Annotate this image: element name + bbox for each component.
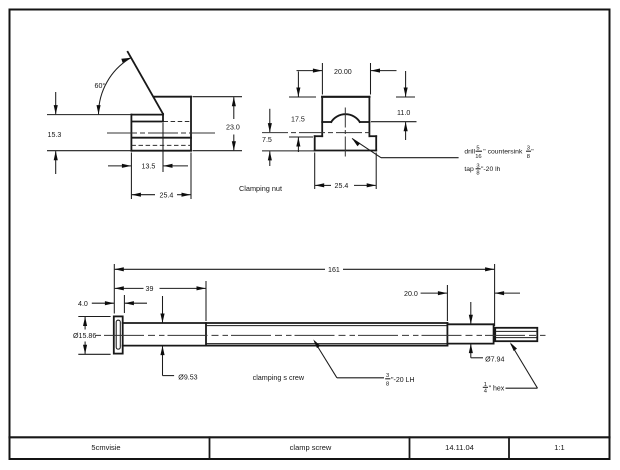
dim dia15.86: upper arrow [84, 317, 86, 330]
dim 13.5: extension line from step [162, 123, 164, 172]
dim 20.0: left extension [446, 285, 448, 321]
svg-text:60°: 60° [95, 82, 106, 90]
dim dia9.53: lower arrow with leader [162, 346, 164, 376]
screw: neck end vertical [493, 324, 495, 343]
side view: right edge [190, 97, 192, 151]
side view: slant edge [128, 52, 163, 114]
dim 25.4 front: left extension [314, 153, 316, 190]
dim 161: dim line with arrows [115, 268, 325, 270]
screw: head inner face [116, 320, 120, 349]
front view: bottom edge [315, 150, 377, 152]
screw: hex outline [495, 328, 537, 341]
dim 15.3: extension line top [47, 114, 131, 116]
title block: divider 3 [508, 437, 510, 459]
dim 161: left extension [113, 264, 115, 314]
svg-text:14.11.04: 14.11.04 [445, 443, 474, 452]
svg-text:161: 161 [328, 266, 340, 274]
front view: right shoulder [369, 135, 376, 137]
dim 7.5: bottom extension [262, 150, 314, 152]
side view: top edge of low block [131, 114, 163, 116]
dim 17.5: top extension [289, 96, 316, 98]
dim 15.3: lower arrow [55, 151, 57, 174]
dim 60deg: arrow bottom [97, 105, 101, 114]
dim dia15.86: bottom extension [78, 353, 110, 355]
dim dia9.53: upper arrow [162, 296, 164, 323]
svg-text:23.0: 23.0 [226, 124, 240, 132]
svg-text:25.4: 25.4 [335, 182, 349, 190]
front view: left shoulder [315, 135, 323, 137]
dim 7.5: upper arrow [269, 109, 271, 132]
svg-text:5: 5 [476, 145, 479, 151]
dim 7.5: lower arrow [269, 151, 271, 166]
screw: head outer rectangle [114, 316, 123, 353]
dim 23.0: extension top [193, 96, 243, 98]
front view: top edge [322, 96, 369, 98]
leader to tapped hole [352, 138, 381, 157]
screw: shank top edge [123, 322, 448, 324]
svg-text:4.0: 4.0 [78, 300, 88, 308]
side view: groove line solid part [131, 121, 163, 123]
svg-text:8: 8 [476, 171, 479, 177]
screw: shank bottom edge [123, 345, 448, 347]
svg-text:20.00: 20.00 [334, 68, 352, 76]
dim dia7.94: upper arrow [470, 302, 472, 324]
screw: thread root top [206, 325, 447, 327]
svg-text:17.5: 17.5 [291, 116, 305, 124]
svg-text:Ø15.86: Ø15.86 [73, 332, 96, 340]
front view: horizontal centerline [262, 132, 372, 134]
dim 15.3: extension line bottom [47, 150, 131, 152]
dim 25.4: left extension line [130, 153, 132, 200]
dim 60deg: arc [99, 58, 131, 114]
dim 20.0: right arrow [495, 292, 520, 294]
dim dia15.86: lower arrow [84, 342, 86, 354]
dim 25.4 front: right extension [375, 153, 377, 190]
side view: horizontal centerline [107, 132, 215, 134]
dim 4.0: right extension [123, 295, 125, 313]
svg-text:39: 39 [146, 285, 154, 293]
dim 20.00: right extension [370, 63, 372, 95]
dim 23.0: upper arrow [233, 97, 235, 119]
dim 4.0: right arrow [125, 302, 147, 304]
title block: divider 2 [409, 437, 411, 459]
screw: thread root bottom [206, 343, 447, 345]
side view: top edge of tall block [154, 96, 191, 98]
dim 13.5: left arrow [108, 165, 131, 167]
dim 13.5: right arrow [163, 165, 188, 167]
dim 23.0: extension bottom [193, 150, 243, 152]
svg-text:1:1: 1:1 [554, 443, 564, 452]
svg-text:Ø7.94: Ø7.94 [485, 355, 504, 363]
screw: hex flat line upper [495, 330, 537, 332]
side view: hidden hole line [131, 144, 191, 146]
front view: right upper edge [368, 97, 370, 136]
dim 25.4: right extension line [190, 153, 192, 200]
svg-text:"-20 LH: "-20 LH [391, 377, 415, 384]
dim dia7.94: lower arrow with leader [470, 344, 472, 358]
dim 161: right extension [494, 264, 496, 326]
svg-text:" hex: " hex [489, 386, 505, 393]
side view: left edge [130, 115, 132, 151]
front view: vertical centerline [344, 108, 346, 157]
dim 60deg: arrow top [121, 58, 131, 63]
svg-text:11.0: 11.0 [397, 109, 410, 117]
dim 20.00: right arrow [371, 70, 397, 72]
leader 3/8-20 LH [315, 342, 337, 378]
side view: mid solid line [131, 137, 191, 139]
dim 25.4 front: dim line with arrows [315, 184, 331, 186]
front view: left upper edge [321, 97, 323, 136]
svg-text:drill: drill [464, 149, 475, 156]
svg-text:5cmvisie: 5cmvisie [91, 443, 120, 452]
dim 17.5: shoulder extension [289, 136, 313, 138]
side view: groove line hidden part [164, 121, 192, 123]
dim 23.0: lower arrow [233, 135, 235, 151]
svg-text:20.0: 20.0 [404, 290, 418, 298]
svg-text:3: 3 [386, 373, 389, 379]
dim 4.0: left arrow [92, 302, 114, 304]
dim 39: right extension [205, 281, 207, 321]
dim 11.0: seat extension [371, 121, 417, 123]
screw: thread end vertical [446, 323, 448, 346]
svg-text:clamp screw: clamp screw [290, 443, 332, 452]
title block: separator [10, 436, 610, 438]
svg-text:25.4: 25.4 [160, 192, 174, 200]
dim 20.00: left extension [321, 63, 323, 95]
title block: divider 1 [209, 437, 211, 459]
screw: neck top edge [447, 323, 493, 325]
svg-text:16: 16 [475, 154, 481, 160]
dim dia15.86: top extension [78, 316, 110, 318]
dim 11.0: upper arrow [405, 71, 407, 97]
svg-text:tap: tap [464, 166, 474, 173]
side view: step vertical edge [162, 114, 164, 122]
svg-text:" countersink: " countersink [483, 149, 523, 156]
dim 17.5: lower arrow [297, 137, 299, 152]
front view: base left edge [314, 136, 316, 150]
svg-text:15.3: 15.3 [48, 131, 62, 139]
svg-text:clamping s crew: clamping s crew [253, 373, 305, 382]
front view: base right edge [375, 136, 377, 150]
dim 11.0: lower arrow [405, 122, 407, 140]
screw: hex flat line lower [495, 337, 537, 339]
svg-text:Ø9.53: Ø9.53 [178, 373, 197, 381]
svg-text:7.5: 7.5 [262, 136, 272, 144]
dim 17.5: upper arrow [297, 71, 299, 96]
svg-text:8: 8 [527, 154, 530, 160]
front view: seat line left [322, 121, 331, 123]
svg-text:8: 8 [386, 382, 389, 388]
front view: seat arc [331, 114, 360, 122]
screw: thread start vertical [205, 323, 207, 346]
leader 1/4 hex [511, 344, 538, 388]
dim 20.0: left arrow [421, 292, 447, 294]
dim 25.4: dim line with arrows [132, 194, 155, 196]
svg-text:"-20 lh: "-20 lh [481, 166, 501, 173]
svg-text:3: 3 [527, 145, 530, 151]
dim 20.00: left arrow [297, 70, 323, 72]
svg-text:Clamping nut: Clamping nut [239, 184, 282, 193]
dim 39: dim line with arrows [115, 287, 144, 289]
screw: neck bottom edge [447, 343, 493, 345]
svg-text:13.5: 13.5 [142, 163, 156, 171]
dim 11.0: top extension [396, 96, 415, 98]
front view: seat line right [360, 121, 370, 123]
screw: centerline [96, 334, 547, 336]
dim 15.3: upper arrow [55, 92, 57, 114]
side view: bottom edge [131, 150, 191, 152]
